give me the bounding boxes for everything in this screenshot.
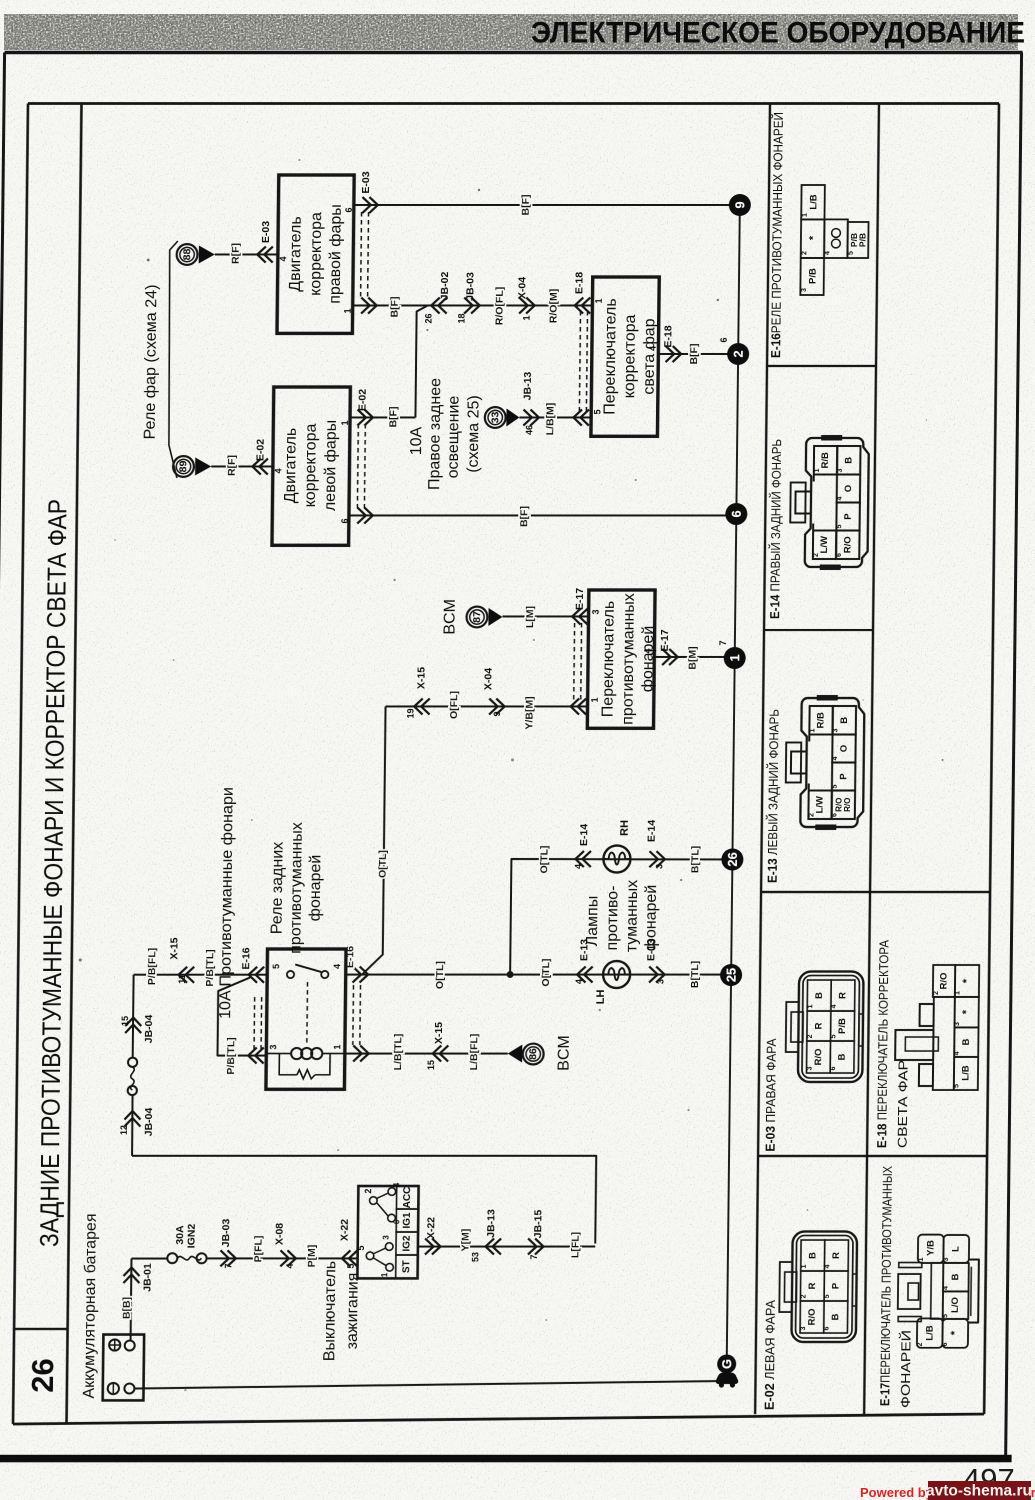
svg-text:корректора: корректора [621, 315, 639, 399]
svg-text:3: 3 [801, 288, 808, 292]
svg-text:26: 26 [725, 852, 740, 866]
svg-text:X-22: X-22 [339, 1219, 351, 1241]
svg-text:R/O: R/O [938, 973, 949, 990]
svg-text:Реле фар (схема 24): Реле фар (схема 24) [142, 285, 161, 440]
svg-text:O: O [843, 485, 854, 492]
svg-text:2: 2 [807, 1034, 814, 1038]
svg-text:10A: 10A [408, 426, 425, 455]
svg-text:G: G [719, 1359, 734, 1369]
svg-text:R/O[FL]: R/O[FL] [493, 287, 505, 325]
svg-text:Y/B[M]: Y/B[M] [523, 696, 535, 729]
svg-text:B[M]: B[M] [687, 646, 699, 669]
svg-text:P/B[TL]: P/B[TL] [204, 949, 216, 986]
svg-text:R[F]: R[F] [230, 243, 242, 264]
svg-text:6: 6 [942, 1342, 949, 1346]
svg-text:6: 6 [392, 1219, 401, 1224]
svg-text:L/W: L/W [815, 796, 826, 813]
svg-text:6: 6 [832, 813, 839, 817]
svg-text:R[F]: R[F] [226, 455, 238, 476]
svg-text:E-18: E-18 [662, 325, 674, 347]
svg-text:4: 4 [332, 964, 342, 969]
svg-text:1: 1 [594, 298, 604, 303]
svg-text:7: 7 [529, 1254, 539, 1259]
svg-text:5: 5 [356, 1245, 366, 1250]
svg-text:корректора: корректора [307, 212, 325, 296]
svg-text:B[B]: B[B] [121, 1297, 133, 1319]
svg-text:4: 4 [273, 468, 283, 473]
svg-text:E-13 ЛЕВЫЙ ЗАДНИЙ ФОНАРЬ: E-13 ЛЕВЫЙ ЗАДНИЙ ФОНАРЬ [764, 709, 781, 883]
svg-text:P: P [831, 1282, 842, 1289]
svg-text:5: 5 [942, 1314, 949, 1318]
svg-text:E-18 ПЕРЕКЛЮЧАТЕЛЬ КОРРЕКТОРА: E-18 ПЕРЕКЛЮЧАТЕЛЬ КОРРЕКТОРА [874, 940, 891, 1148]
svg-text:88: 88 [181, 249, 193, 261]
svg-text:3: 3 [591, 609, 601, 614]
svg-text:2: 2 [363, 1188, 373, 1193]
svg-text:2: 2 [808, 813, 815, 817]
svg-text:Двигатель: Двигатель [282, 428, 300, 503]
svg-text:2: 2 [933, 991, 940, 995]
svg-text:4: 4 [648, 346, 658, 351]
svg-text:3: 3 [268, 1044, 278, 1049]
svg-text:L[FL]: L[FL] [570, 1232, 582, 1258]
svg-text:15: 15 [120, 1016, 130, 1026]
svg-text:ФОНАРЕЙ: ФОНАРЕЙ [898, 1330, 914, 1408]
svg-text:4: 4 [573, 864, 583, 869]
svg-text:5: 5 [271, 964, 281, 969]
svg-text:avto-shema.ru: avto-shema.ru [926, 1483, 1032, 1500]
svg-text:JB-04: JB-04 [143, 1108, 155, 1137]
svg-text:B: B [807, 1252, 818, 1259]
svg-text:Двигатель: Двигатель [287, 216, 305, 291]
svg-text:4: 4 [278, 256, 288, 261]
svg-text:1: 1 [814, 468, 821, 472]
svg-text:4: 4 [285, 1263, 295, 1268]
svg-text:1: 1 [590, 697, 600, 702]
svg-text:*: * [961, 1009, 973, 1014]
svg-text:BCM: BCM [441, 599, 458, 635]
svg-text:R: R [831, 1252, 842, 1259]
svg-text:1: 1 [918, 1257, 925, 1261]
svg-text:L/B[FL]: L/B[FL] [468, 1034, 480, 1071]
svg-text:6: 6 [719, 337, 729, 342]
svg-text:1: 1 [801, 1264, 808, 1268]
svg-text:(схема 25): (схема 25) [465, 395, 483, 473]
svg-text:1: 1 [807, 1004, 814, 1008]
svg-text:7: 7 [718, 640, 728, 645]
svg-text:B: B [837, 1053, 848, 1060]
svg-text:JB-01: JB-01 [142, 1263, 154, 1292]
svg-text:правой фары: правой фары [327, 204, 345, 304]
svg-text:IG1: IG1 [402, 1212, 413, 1229]
svg-text:JB-04: JB-04 [143, 1015, 155, 1044]
svg-text:4: 4 [643, 648, 653, 653]
svg-text:X-04: X-04 [516, 277, 528, 299]
svg-text:IGN2: IGN2 [186, 1224, 198, 1249]
svg-text:JB-13: JB-13 [485, 1209, 497, 1238]
svg-text:3: 3 [656, 979, 666, 984]
svg-text:освещение: освещение [445, 396, 463, 479]
svg-text:X-04: X-04 [482, 668, 494, 690]
svg-text:4: 4 [824, 251, 831, 255]
svg-text:E-03 ПРАВАЯ ФАРА: E-03 ПРАВАЯ ФАРА [762, 1038, 778, 1151]
svg-text:B: B [961, 1038, 972, 1045]
svg-text:E-16РЕЛЕ ПРОТИВОТУМАННЫХ ФОНАР: E-16РЕЛЕ ПРОТИВОТУМАННЫХ ФОНАРЕЙ [768, 112, 786, 358]
svg-text:11: 11 [177, 974, 187, 984]
svg-text:R: R [837, 992, 848, 999]
svg-text:2: 2 [813, 553, 820, 557]
svg-text:E-02 ЛЕВАЯ ФАРА: E-02 ЛЕВАЯ ФАРА [761, 1300, 777, 1410]
svg-text:3: 3 [382, 1235, 391, 1240]
svg-text:B: B [843, 457, 854, 464]
svg-text:L/O: L/O [950, 1297, 961, 1313]
svg-text:JB-02: JB-02 [439, 272, 451, 301]
svg-text:P: P [843, 513, 854, 520]
svg-text:B[F]: B[F] [518, 506, 530, 527]
svg-text:L/B: L/B [808, 194, 819, 209]
svg-text:R/O: R/O [806, 1309, 817, 1326]
svg-text:5: 5 [346, 1263, 356, 1268]
svg-text:JB-03: JB-03 [220, 1219, 232, 1248]
svg-text:B[TL]: B[TL] [689, 846, 701, 873]
svg-text:P: P [838, 773, 849, 780]
svg-text:26: 26 [423, 313, 433, 323]
svg-text:E-18: E-18 [573, 272, 585, 294]
svg-text:E-14: E-14 [578, 824, 590, 846]
svg-text:B[F]: B[F] [387, 407, 399, 428]
svg-text:E-16: E-16 [240, 947, 252, 969]
svg-text:света фар: света фар [641, 318, 659, 394]
svg-text:L/B: L/B [924, 1325, 935, 1340]
svg-text:IG2: IG2 [401, 1235, 412, 1252]
svg-text:1: 1 [802, 213, 809, 217]
svg-text:E-17: E-17 [574, 588, 586, 610]
svg-text:3: 3 [943, 1257, 950, 1261]
svg-text:6: 6 [344, 207, 354, 212]
svg-text:противотуманных: противотуманных [287, 822, 305, 954]
svg-text:противотуманных: противотуманных [619, 593, 637, 725]
svg-text:R/B: R/B [820, 452, 831, 468]
svg-text:4: 4 [574, 979, 584, 984]
svg-text:3: 3 [807, 1066, 814, 1070]
svg-text:Y[M]: Y[M] [459, 1229, 471, 1252]
svg-text:2: 2 [917, 1342, 924, 1346]
svg-text:L/B: L/B [960, 1065, 971, 1080]
svg-text:L/B[M]: L/B[M] [544, 403, 556, 436]
svg-text:B: B [830, 1313, 841, 1320]
svg-text:ACC: ACC [402, 1187, 413, 1209]
svg-text:E-02: E-02 [357, 389, 369, 411]
svg-text:3: 3 [954, 1022, 961, 1026]
svg-text:O[TL]: O[TL] [434, 961, 446, 989]
svg-text:1: 1 [332, 1044, 342, 1049]
svg-text:B: B [950, 1273, 961, 1280]
svg-text:ЭЛЕКТРИЧЕСКОЕ ОБОРУДОВАНИЕ: ЭЛЕКТРИЧЕСКОЕ ОБОРУДОВАНИЕ [531, 17, 1025, 50]
svg-text:Y/B: Y/B [925, 1240, 936, 1256]
svg-text:B: B [814, 992, 825, 999]
svg-text:X-15: X-15 [168, 937, 180, 959]
svg-text:P[FL]: P[FL] [252, 1236, 264, 1263]
svg-text:L: L [950, 1246, 961, 1252]
svg-text:R: R [813, 1022, 824, 1029]
svg-text:ST: ST [401, 1260, 412, 1273]
svg-text:26: 26 [25, 1358, 60, 1392]
svg-text:R/O: R/O [843, 798, 852, 812]
svg-text:L[M]: L[M] [524, 606, 536, 628]
svg-text:B[F]: B[F] [688, 344, 700, 365]
svg-text:1: 1 [380, 1272, 389, 1277]
svg-text:R/O[M]: R/O[M] [548, 289, 560, 323]
svg-text:E-14: E-14 [646, 820, 658, 842]
svg-text:Реле задних: Реле задних [269, 842, 287, 934]
svg-text:корректора: корректора [302, 424, 320, 508]
svg-text:4: 4 [832, 756, 839, 760]
svg-text:87: 87 [471, 611, 483, 623]
svg-text:зажигания: зажигания [344, 1273, 362, 1350]
svg-text:19: 19 [406, 708, 416, 718]
svg-text:6: 6 [729, 510, 744, 517]
svg-text:X-22: X-22 [425, 1217, 437, 1239]
svg-text:L/W: L/W [819, 536, 830, 553]
svg-text:O[TL]: O[TL] [540, 959, 552, 987]
svg-text:O: O [838, 745, 849, 752]
svg-text:X-15: X-15 [433, 1022, 445, 1044]
svg-text:7: 7 [223, 1263, 233, 1268]
svg-text:Аккумуляторная батарея: Аккумуляторная батарея [81, 1213, 100, 1398]
svg-text:53: 53 [470, 1252, 480, 1262]
svg-text:R/O: R/O [842, 536, 853, 553]
svg-text:3: 3 [800, 1326, 807, 1330]
svg-text:2: 2 [731, 350, 746, 357]
svg-text:СВЕТА ФАР: СВЕТА ФАР [895, 1060, 911, 1148]
svg-text:B[F]: B[F] [389, 297, 401, 318]
svg-text:4: 4 [831, 1004, 838, 1008]
svg-text:5: 5 [592, 409, 602, 414]
svg-text:30A: 30A [174, 1225, 186, 1245]
svg-text:5: 5 [836, 524, 843, 528]
svg-text:E-02: E-02 [254, 439, 266, 461]
svg-text:LH: LH [595, 990, 607, 1005]
svg-text:B: B [839, 717, 850, 724]
svg-text:5: 5 [953, 1084, 960, 1088]
svg-text:10A Противотуманные фонари: 10A Противотуманные фонари [217, 787, 237, 1019]
svg-text:левой фары: левой фары [322, 420, 340, 511]
svg-text:89: 89 [177, 461, 189, 473]
svg-text:O[FL]: O[FL] [448, 691, 460, 719]
svg-text:P/B: P/B [807, 268, 818, 284]
svg-text:P/B: P/B [857, 233, 867, 247]
svg-text:E-14 ПРАВЫЙ ЗАДНИЙ ФОНАРЬ: E-14 ПРАВЫЙ ЗАДНИЙ ФОНАРЬ [767, 439, 784, 619]
svg-text:X-08: X-08 [274, 1223, 286, 1245]
svg-text:E-17ПЕРЕКЛЮЧАТЕЛЬ ПРОТИВОТУМАН: E-17ПЕРЕКЛЮЧАТЕЛЬ ПРОТИВОТУМАННЫХ [877, 1166, 895, 1406]
svg-text:X-15: X-15 [415, 667, 427, 689]
svg-text:12: 12 [119, 1125, 129, 1135]
svg-text:5: 5 [824, 1294, 831, 1298]
svg-text:P/B[FL]: P/B[FL] [146, 948, 158, 985]
svg-text:фонарей: фонарей [307, 855, 325, 922]
svg-text:B[F]: B[F] [520, 195, 532, 216]
svg-text:1: 1 [522, 315, 532, 320]
svg-text:противо-: противо- [604, 886, 622, 951]
svg-text:1: 1 [343, 308, 353, 313]
svg-text:3: 3 [654, 864, 664, 869]
svg-text:2: 2 [800, 1294, 807, 1298]
svg-text:E-17: E-17 [659, 629, 671, 651]
svg-text:O[TL]: O[TL] [538, 846, 550, 874]
svg-text:E-03: E-03 [260, 221, 272, 243]
svg-text:25: 25 [724, 968, 739, 982]
svg-text:1: 1 [340, 420, 350, 425]
svg-text:R/B: R/B [816, 712, 827, 728]
svg-text:5: 5 [848, 251, 855, 255]
svg-text:R/O: R/O [813, 1049, 824, 1066]
svg-text:P/B[TL]: P/B[TL] [225, 1037, 237, 1074]
svg-text:Лампы: Лампы [584, 896, 602, 947]
svg-text:L/B[TL]: L/B[TL] [392, 1034, 404, 1071]
svg-text:3: 3 [837, 468, 844, 472]
svg-text:Правое заднее: Правое заднее [426, 378, 444, 490]
svg-text:6: 6 [836, 553, 843, 557]
svg-text:4: 4 [837, 496, 844, 500]
svg-text:1: 1 [727, 654, 742, 661]
svg-text:R: R [807, 1282, 818, 1289]
svg-text:P/B: P/B [837, 1018, 848, 1034]
svg-text:9: 9 [732, 201, 747, 208]
svg-text:фонарей: фонарей [642, 885, 660, 952]
svg-text:4: 4 [954, 1051, 961, 1055]
svg-text:туманных: туманных [623, 880, 641, 952]
svg-text:1: 1 [954, 991, 961, 995]
svg-text:4: 4 [392, 1182, 401, 1187]
svg-text:*: * [961, 978, 973, 983]
svg-text:Переключатель: Переключатель [600, 601, 618, 717]
svg-text:Переключатель: Переключатель [601, 298, 619, 414]
svg-text:5: 5 [831, 1034, 838, 1038]
svg-text:6: 6 [340, 518, 350, 523]
svg-text:6: 6 [824, 1326, 831, 1330]
svg-text:18: 18 [456, 313, 466, 323]
svg-text:Выключатель: Выключатель [321, 1261, 339, 1361]
svg-text:1: 1 [809, 728, 816, 732]
svg-text:4: 4 [943, 1286, 950, 1290]
svg-text:46: 46 [524, 425, 534, 435]
svg-text:O[TL]: O[TL] [377, 850, 389, 878]
svg-text:86: 86 [527, 1048, 539, 1060]
svg-text:JB-13: JB-13 [522, 372, 534, 401]
svg-text:33: 33 [489, 412, 501, 424]
svg-text:B[TL]: B[TL] [689, 961, 701, 988]
svg-text:JB-03: JB-03 [464, 272, 476, 301]
svg-text:P[M]: P[M] [306, 1245, 318, 1268]
svg-text:6: 6 [830, 1066, 837, 1070]
svg-text:15: 15 [426, 1060, 436, 1070]
svg-text:5: 5 [832, 784, 839, 788]
svg-text:*: * [949, 1330, 961, 1335]
svg-text:BCM: BCM [556, 1035, 573, 1071]
svg-text:E-03: E-03 [360, 171, 372, 193]
svg-text:9: 9 [492, 711, 502, 716]
svg-text:фонарей: фонарей [639, 626, 657, 693]
svg-text:RH: RH [619, 820, 631, 836]
svg-text:3: 3 [833, 728, 840, 732]
svg-text:JB-15: JB-15 [532, 1210, 544, 1239]
svg-text:4: 4 [824, 1264, 831, 1268]
svg-text:2: 2 [801, 251, 808, 255]
svg-text:*: * [807, 235, 819, 240]
